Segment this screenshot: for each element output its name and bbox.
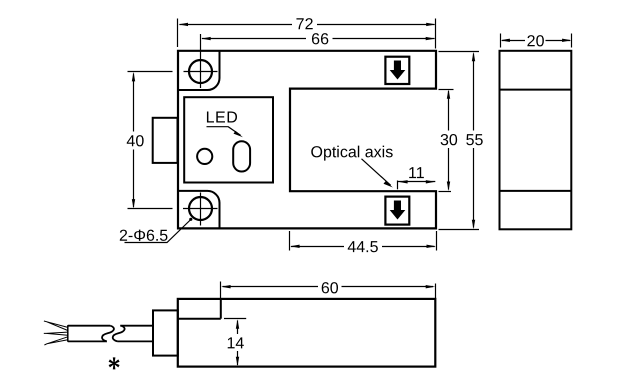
44.5 dimension line (291, 246, 435, 248)
svg-text:2-Φ6.5: 2-Φ6.5 (119, 228, 168, 245)
arrow glyph in bottom marker box (390, 201, 406, 220)
mounting hole bottom (189, 197, 212, 220)
44.5 extension left (289, 231, 291, 251)
11 extension left (397, 181, 399, 190)
55 extension top (439, 51, 480, 53)
LED leader arrowhead (234, 131, 243, 137)
11 arrow right (426, 180, 436, 183)
20 arrow left (500, 39, 510, 42)
hole top centerline horizontal (184, 71, 218, 73)
svg-text:Optical axis: Optical axis (311, 144, 394, 161)
bottom view step vertical (220, 299, 222, 319)
55 arrow down (472, 220, 475, 230)
svg-text:44.5: 44.5 (347, 239, 378, 256)
bottom view body (178, 299, 436, 367)
indicator circle (197, 149, 212, 164)
72/66 extension right (435, 19, 437, 49)
44.5 arrow left (290, 245, 300, 248)
2-phi6.5 leader (125, 220, 191, 243)
mounting hole top (189, 60, 212, 83)
72 arrow right (426, 23, 436, 26)
hole bottom centerline vertical (200, 193, 202, 226)
40 arrow up (132, 72, 135, 82)
cable jacket bottom line (68, 340, 153, 342)
leader dot on bottom hole (189, 218, 192, 221)
LED panel rectangle (184, 97, 273, 182)
30 arrow up (447, 89, 450, 99)
20 extension right (571, 34, 573, 48)
44.5 arrow right (427, 245, 437, 248)
dimension arrowheads (132, 23, 572, 367)
left tab (153, 118, 178, 163)
side view divider lower (500, 190, 572, 192)
dimension texts (119, 16, 545, 352)
14 extension top (224, 318, 246, 320)
dimension thin lines (125, 19, 572, 366)
wire middle (44, 332, 68, 335)
svg-text:LED: LED (206, 110, 239, 127)
66 arrow left (201, 37, 211, 40)
top-left mounting lug (178, 51, 220, 90)
60 arrow right (426, 285, 436, 288)
72 dimension line (180, 24, 435, 26)
20 arrow right (562, 39, 572, 42)
emitter marker box top (385, 57, 409, 84)
svg-text:40: 40 (126, 133, 144, 150)
LED window stadium (233, 141, 250, 171)
30 arrow down (447, 182, 450, 192)
cable jacket end (67, 325, 69, 342)
20 dimension line (502, 40, 570, 42)
bottom view step horizontal (178, 318, 221, 320)
wire bottom (44, 337, 67, 345)
svg-text:60: 60 (321, 280, 339, 297)
14 arrow down (236, 357, 239, 367)
30 extension top (439, 89, 454, 91)
55 extension bottom (439, 229, 480, 231)
LED leader (207, 127, 241, 136)
Optical axis leader (362, 159, 391, 186)
30 extension bottom (439, 191, 452, 193)
asterisk (109, 357, 120, 369)
66 dimension line (202, 38, 435, 40)
svg-text:30: 30 (440, 132, 458, 149)
cable gland (153, 310, 178, 355)
side view body (right) (500, 51, 572, 230)
55 dimension line (473, 54, 475, 228)
wire top (44, 321, 68, 345)
11 dimension line (398, 181, 435, 183)
20 extension left (500, 34, 502, 48)
Optical axis leader arrowhead (384, 181, 393, 187)
30 dimension line (448, 91, 450, 190)
svg-text:20: 20 (527, 33, 545, 50)
bottom-left mounting lug (178, 191, 220, 229)
14 arrow up (236, 319, 239, 329)
40 arrow down (132, 199, 135, 209)
60 extension right (435, 284, 437, 299)
60 extension left (220, 282, 222, 299)
cable break squiggle left (102, 326, 114, 342)
side view divider upper (500, 89, 572, 91)
40 dimension line (133, 74, 135, 208)
svg-text:55: 55 (466, 132, 484, 149)
arrow glyph in top marker box (390, 61, 406, 80)
sensor body outline (front view, U-shaped) (178, 51, 436, 229)
66 arrow right (426, 37, 436, 40)
72 extension left (177, 19, 179, 48)
44.5 extension right (436, 231, 438, 251)
72 arrow left (179, 23, 189, 26)
14 dimension line (237, 321, 239, 366)
svg-text:11: 11 (408, 165, 425, 182)
emitter marker box bottom (385, 197, 409, 225)
40 extension top (128, 71, 173, 73)
hole bottom centerline horizontal (183, 208, 218, 210)
svg-text:66: 66 (311, 31, 329, 48)
cable jacket top line (68, 325, 153, 327)
11 arrow left (398, 180, 408, 183)
cable break squiggle right (113, 326, 125, 342)
55 arrow up (472, 52, 475, 62)
60 dimension line (223, 286, 434, 288)
hole top centerline vertical (also 66 extension line) (200, 34, 202, 88)
svg-text:14: 14 (227, 335, 245, 352)
60 arrow left (221, 285, 231, 288)
40 extension bottom (128, 208, 173, 210)
